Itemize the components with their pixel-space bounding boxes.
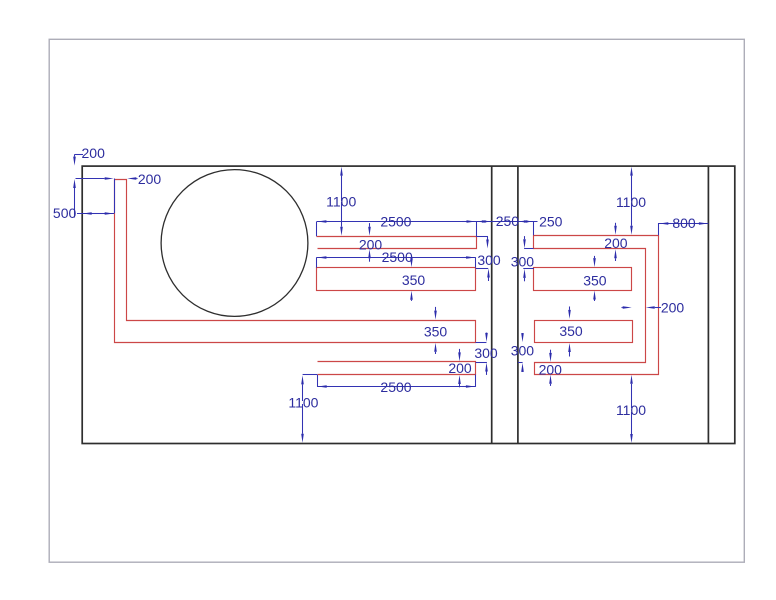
- svg-text:1100: 1100: [616, 194, 646, 210]
- dimension 1100 bottom left room: [288, 375, 318, 442]
- svg-text:2500: 2500: [382, 249, 413, 265]
- dimension 200 spiral gap right room: [622, 299, 685, 315]
- svg-text:350: 350: [559, 323, 583, 339]
- dimension 1100 bottom right room: [616, 375, 646, 443]
- interior wall far right: [707, 166, 709, 443]
- dimension 200 lower gap right room: [539, 350, 563, 386]
- dimension 200 row gap left room: [359, 223, 383, 262]
- svg-text:200: 200: [448, 360, 472, 376]
- dimension 800 pipe to wall right room: [659, 215, 709, 235]
- dimension 250 pipe to wall left: [477, 213, 520, 229]
- dimension 300 gap lower right room: [511, 333, 535, 372]
- svg-text:1100: 1100: [288, 395, 318, 411]
- dimension 2500 second row left room: [317, 249, 476, 268]
- svg-text:300: 300: [511, 253, 535, 269]
- svg-text:1100: 1100: [616, 402, 646, 418]
- svg-text:200: 200: [604, 235, 628, 251]
- svg-text:250: 250: [496, 213, 520, 229]
- pipe run lower left room: [318, 362, 476, 375]
- svg-text:800: 800: [672, 215, 696, 231]
- interior wall left: [491, 166, 493, 443]
- svg-text:200: 200: [661, 299, 685, 315]
- pipe rectangle mid left room: [317, 268, 476, 291]
- svg-text:300: 300: [477, 252, 501, 268]
- dimension 1100 top right room: [616, 167, 646, 235]
- svg-text:300: 300: [474, 345, 498, 361]
- dimension 350 rect height left room: [402, 258, 426, 301]
- svg-text:200: 200: [82, 145, 106, 161]
- dimension 200 top-left offset: [73, 145, 105, 218]
- svg-text:200: 200: [138, 171, 162, 187]
- svg-text:200: 200: [539, 361, 563, 377]
- dimension 500 left wall to pipe: [53, 179, 115, 222]
- pipe rectangle lower right room: [535, 321, 633, 343]
- svg-text:300: 300: [511, 343, 535, 359]
- dimension 300 gap upper left room: [476, 236, 501, 281]
- dimension 350 lower rect height right room: [559, 307, 583, 357]
- pipe rectangle upper right room: [534, 268, 632, 291]
- room outline wall: [82, 166, 735, 443]
- dimension 2500 bottom left room: [303, 375, 476, 395]
- svg-text:500: 500: [53, 205, 77, 221]
- pipe run upper left room: [317, 237, 477, 249]
- circle obstacle: [161, 170, 308, 317]
- svg-text:350: 350: [424, 324, 448, 340]
- dimension 200 row gap right room: [604, 223, 628, 261]
- dimension 200 pipe spacing top-left: [76, 171, 162, 187]
- svg-text:2500: 2500: [380, 214, 411, 230]
- svg-text:350: 350: [402, 272, 426, 288]
- dimension 2500 first row left room: [317, 214, 538, 237]
- dimension 300 gap upper right room: [511, 236, 535, 281]
- svg-text:2500: 2500: [380, 379, 411, 395]
- interior wall right: [517, 166, 519, 443]
- dimension 1100 top left room: [326, 167, 356, 236]
- svg-text:350: 350: [583, 272, 607, 288]
- svg-text:1100: 1100: [326, 194, 356, 210]
- outer page border: [49, 39, 744, 562]
- dimension 350 rect height right room: [583, 256, 607, 301]
- svg-text:200: 200: [359, 237, 383, 253]
- dimension 200 lower gap left room: [448, 349, 472, 387]
- dimension 250 wall to pipe right: [518, 213, 562, 235]
- dimension 300 gap lower left room: [474, 333, 498, 375]
- pipe loop 1 outer left room: [115, 180, 476, 343]
- svg-text:250: 250: [539, 213, 563, 229]
- pipe spiral loop right room: [534, 236, 659, 375]
- dimension 350 loop spacing left room: [424, 307, 448, 354]
